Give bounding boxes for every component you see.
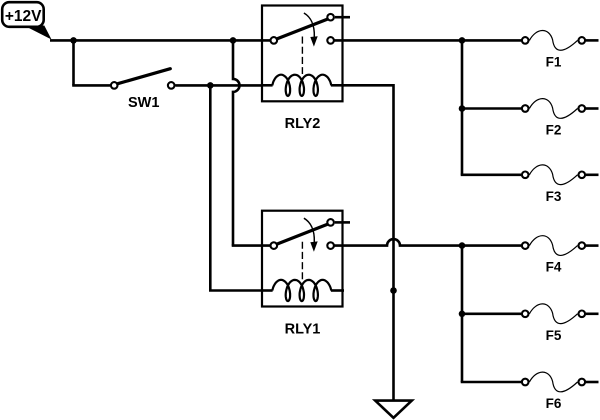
wire RLY1 coil branch horizontal	[209, 289, 263, 292]
ground symbol	[375, 401, 412, 418]
wire RLY1 common branch vertical with hop over SW1 wire	[233, 40, 240, 245]
RLY1 switch blade	[277, 224, 327, 244]
svg-text:F6: F6	[546, 396, 562, 411]
wire branch to F5	[462, 312, 521, 315]
wire SW1 output to RLY2 coil	[176, 84, 264, 87]
RLY2 coil left lead	[261, 84, 273, 87]
wire RLY1 common branch horizontal	[232, 244, 271, 247]
fuse F6 output stub	[586, 381, 599, 384]
fuse F6 left terminal	[522, 379, 529, 386]
wire branch to F3	[461, 174, 521, 177]
node +12V supply flag	[24, 26, 52, 40]
junction dot fuse bus at F2	[459, 105, 466, 112]
RLY2 common contact pin	[271, 37, 278, 44]
junction dot SW1 output / RLY1 coil branch	[207, 82, 214, 89]
RLY2 actuation arrow	[304, 13, 314, 37]
fuse F6 right terminal	[579, 379, 586, 386]
RLY2 switch blade	[277, 19, 327, 39]
fuse F2 output stub	[586, 107, 599, 110]
fuse F4 right terminal	[579, 242, 586, 249]
fuse F4 output stub	[586, 244, 599, 247]
RLY1 NO contact pin	[327, 242, 334, 249]
fuse F1 right terminal	[579, 37, 586, 44]
RLY1 NC stub wire	[335, 221, 350, 224]
fuse F2 left terminal	[522, 105, 529, 112]
wire RLY1 coil branch vertical	[209, 85, 212, 290]
RLY2 NO contact pin	[327, 37, 334, 44]
fuse F5 right terminal	[579, 311, 586, 318]
RLY1 coil left lead	[261, 289, 273, 292]
fuse F4 element	[529, 236, 577, 256]
svg-text:F4: F4	[546, 260, 562, 275]
fuse F1 element	[529, 30, 577, 50]
RLY2 coil	[272, 75, 331, 96]
wire fuse bus top vertical F1-F3	[461, 40, 464, 174]
RLY1 common contact pin	[271, 242, 278, 249]
fuse F2 right terminal	[579, 105, 586, 112]
wire fuse bus bottom vertical F4-F6	[461, 246, 464, 382]
svg-text:RLY1: RLY1	[285, 321, 321, 337]
wire branch to F2	[462, 107, 521, 110]
wire RLY2 coil return down	[343, 85, 394, 290]
RLY1 actuation dashed link	[301, 242, 303, 280]
junction dot fuse bus bottom at F4	[459, 242, 466, 249]
RLY2 NC stub wire	[335, 16, 350, 19]
wire to ground	[392, 291, 395, 401]
fuse F5 output stub	[586, 312, 599, 315]
RLY2 NC contact pin	[327, 14, 334, 21]
RLY2 actuation dashed link	[301, 37, 303, 75]
fuse F4 left terminal	[522, 242, 529, 249]
fuse F2 element	[529, 99, 577, 119]
junction dot RLY1 coil return / ground wire	[390, 287, 397, 294]
wire to SW1 left terminal	[72, 84, 110, 87]
wire RLY1 NO output to F4 with hop over ground wire	[335, 239, 522, 245]
junction dot +12V rail / RLY1 common branch	[230, 37, 237, 44]
junction dot at +12V rail / SW1 branch	[70, 37, 77, 44]
relay RLY2 body box	[262, 6, 343, 102]
RLY2 coil right lead	[331, 84, 344, 87]
wire branch down to SW1	[72, 40, 75, 85]
RLY1 actuation arrow	[304, 218, 314, 242]
wire RLY2 NO output to F1	[335, 39, 522, 42]
svg-text:F2: F2	[546, 123, 562, 138]
RLY1 coil	[272, 280, 331, 301]
fuse F3 left terminal	[522, 172, 529, 179]
svg-text:RLY2: RLY2	[285, 116, 321, 132]
switch SW1 left terminal	[111, 82, 118, 89]
svg-text:+12V: +12V	[5, 8, 42, 25]
wire +12V rail to RLY2 common	[50, 39, 271, 42]
relay RLY1 body box	[262, 211, 343, 307]
junction dot fuse bus top at F1	[459, 37, 466, 44]
RLY1 NC contact pin	[327, 219, 334, 226]
switch SW1 blade	[118, 69, 171, 84]
fuse F1 output stub	[586, 39, 599, 42]
fuse F6 element	[529, 372, 577, 392]
svg-text:F5: F5	[546, 328, 562, 343]
wire branch to F6	[461, 381, 521, 384]
svg-text:SW1: SW1	[128, 95, 159, 111]
switch SW1 right terminal	[168, 82, 175, 89]
fuse F3 element	[529, 165, 577, 185]
fuse F5 left terminal	[522, 311, 529, 318]
svg-text:F3: F3	[546, 189, 562, 204]
fuse F3 right terminal	[579, 172, 586, 179]
fuse F5 element	[529, 304, 577, 324]
svg-text:F1: F1	[546, 54, 562, 69]
junction dot fuse bus at F5	[459, 311, 466, 318]
fuse F1 left terminal	[522, 37, 529, 44]
fuse F3 output stub	[586, 174, 599, 177]
RLY1 coil right lead	[331, 289, 344, 292]
